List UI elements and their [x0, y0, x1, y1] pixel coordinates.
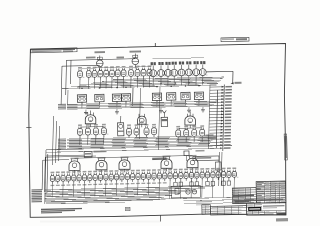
lower sig smudges — [248, 210, 252, 213]
tube W29 — [200, 168, 204, 170]
bus line C5 — [67, 142, 211, 145]
module A5 — [152, 93, 161, 101]
tube V25 — [127, 124, 131, 126]
ladder tail wires — [218, 152, 221, 186]
wire drop — [147, 181, 149, 195]
link wire — [46, 146, 232, 150]
wire drop — [169, 181, 171, 199]
tube W5 — [72, 171, 76, 173]
tube V16 — [172, 62, 174, 65]
tube W24 — [173, 169, 177, 171]
notes text block — [41, 208, 82, 210]
tube V14 — [158, 62, 160, 65]
tube V4 — [87, 67, 91, 69]
resistor — [222, 181, 225, 185]
resistor — [227, 181, 230, 185]
top tab box — [221, 37, 249, 41]
module A4 — [121, 94, 130, 102]
wire drop — [156, 101, 158, 107]
tube W23 — [168, 169, 172, 171]
tube W28 — [195, 168, 199, 170]
wire drop — [122, 78, 124, 88]
tube W8 — [88, 171, 92, 173]
wire drop — [148, 78, 150, 88]
wire drop — [179, 181, 181, 199]
bus line C3 — [67, 139, 214, 142]
net label D5 — [31, 196, 42, 197]
tube W11 — [104, 170, 108, 172]
wire drop — [73, 183, 75, 197]
cathode wire crown — [153, 79, 208, 80]
left riser — [60, 66, 63, 105]
wire drop — [99, 79, 101, 89]
tube W30 — [206, 168, 210, 170]
tube V13 — [142, 65, 146, 67]
bus line C1 — [67, 136, 216, 139]
resistor — [174, 182, 177, 186]
wire drop — [185, 138, 187, 142]
divider wire — [132, 88, 134, 106]
wire drop — [62, 183, 64, 197]
top-left notes box — [31, 48, 77, 53]
transformer T1 label — [94, 51, 105, 53]
tube W10 — [99, 170, 103, 172]
tube W18 — [141, 170, 145, 172]
wire drop — [136, 78, 138, 88]
osc sub box — [215, 162, 221, 170]
tube W20 — [152, 169, 156, 171]
wire drop — [158, 181, 160, 199]
top border tick — [154, 43, 156, 47]
wire drop — [222, 180, 224, 198]
bus line A1 — [113, 77, 224, 80]
drawing number — [277, 213, 286, 215]
net label D3 — [31, 193, 42, 194]
wire drop — [87, 137, 89, 145]
tube W9 — [93, 171, 97, 173]
gate row link — [75, 156, 193, 159]
tube V5 — [93, 67, 97, 69]
tube V31 — [192, 125, 196, 127]
wire drop — [103, 136, 105, 144]
net label D4 — [31, 194, 42, 195]
relay K1 — [117, 123, 123, 136]
crystal Y1 — [161, 117, 168, 126]
wire drop — [177, 139, 179, 143]
title text — [263, 205, 285, 207]
label TP-1 — [86, 56, 96, 58]
wire drop — [173, 79, 175, 85]
junction dots — [81, 88, 83, 90]
misc riser 3 — [159, 87, 161, 150]
resistor network — [175, 188, 179, 194]
misc riser 6 — [45, 150, 46, 204]
heater wire row1 — [78, 67, 151, 69]
module A3 — [112, 94, 121, 102]
tube V3 — [78, 67, 82, 69]
delay Z1 — [84, 152, 92, 158]
module A2 — [95, 94, 104, 102]
bus line D3 — [45, 190, 197, 194]
lower sig verticals — [251, 211, 253, 215]
tube V19 — [193, 61, 195, 64]
gate H3 — [119, 160, 130, 170]
bus line D5 — [45, 194, 181, 197]
tube W22 — [163, 169, 167, 171]
ladder label — [208, 137, 217, 139]
tube V22 — [86, 124, 90, 126]
tube W31 — [211, 168, 215, 170]
tube W2 — [56, 171, 60, 173]
left border tick — [26, 126, 31, 128]
resistor — [190, 182, 193, 186]
bus line C4 — [67, 140, 212, 143]
gate H5 — [187, 158, 198, 168]
net label C3 — [58, 142, 66, 143]
net label C6 — [58, 146, 66, 147]
bottom-right sheet number — [276, 218, 288, 221]
wire drop — [193, 138, 195, 142]
delay Z2 — [184, 151, 189, 156]
ladder rail outer — [223, 85, 225, 152]
wire drop — [51, 184, 53, 198]
bottom small box — [125, 207, 130, 211]
wire drop — [95, 137, 97, 145]
tube W16 — [131, 170, 135, 172]
ground — [188, 107, 190, 110]
logo box — [248, 207, 261, 211]
misc riser 5 — [52, 116, 53, 165]
tube V7 — [104, 66, 108, 68]
tube W27 — [190, 168, 194, 170]
tube W3 — [61, 171, 65, 173]
wire drop — [212, 180, 214, 198]
bus line A6 — [62, 85, 217, 89]
tube V29 — [176, 126, 180, 128]
bus line C6 — [67, 143, 210, 146]
wire drop — [115, 182, 117, 196]
bus line A4 — [80, 82, 220, 85]
net label D7 — [31, 199, 42, 200]
bus line A3 — [91, 80, 221, 83]
bus line D2 — [45, 188, 206, 192]
net label B1 — [58, 104, 66, 105]
long bus line E2 — [46, 202, 125, 204]
tube V13 — [151, 62, 153, 65]
long bus line E1 — [46, 200, 160, 203]
tolerance note line — [184, 199, 254, 201]
wire drop — [180, 79, 182, 85]
lower bus F — [120, 197, 246, 200]
application text — [196, 204, 210, 205]
right fold tab — [284, 134, 287, 160]
tube W35 — [232, 167, 236, 169]
gate G1 fanout — [80, 126, 104, 129]
tube W6 — [77, 171, 81, 173]
net label C1 — [58, 139, 66, 140]
bus line D1 — [45, 186, 215, 190]
wire drop — [202, 79, 204, 85]
titleblock outline — [247, 203, 286, 216]
gate G3 fanout — [178, 127, 202, 130]
sig row divider — [247, 206, 262, 208]
tube W4 — [66, 171, 70, 173]
bus line B2 — [67, 103, 216, 106]
wire drop — [142, 78, 144, 88]
sig smudges — [247, 204, 253, 205]
tube W33 — [222, 168, 226, 170]
wire drop — [83, 183, 85, 197]
tube V24 — [102, 124, 106, 126]
tube V14 — [148, 65, 152, 67]
bus line B3 — [67, 104, 214, 107]
revision table left frame — [232, 188, 256, 204]
revision table right frame — [256, 181, 286, 203]
wire drop — [130, 78, 132, 88]
net label C7 — [58, 148, 66, 149]
tube W32 — [216, 168, 220, 170]
net label B2 — [58, 105, 66, 106]
bus line D6 — [45, 196, 173, 199]
wire drop — [79, 79, 81, 89]
scale table — [202, 205, 211, 215]
tube V30 — [184, 126, 188, 128]
application line — [184, 202, 254, 204]
wire drop — [201, 138, 203, 142]
wire drop — [188, 79, 190, 85]
bus line A2 — [102, 79, 223, 82]
tube W17 — [136, 170, 140, 172]
wire drop — [93, 79, 95, 89]
label TP-2 — [116, 57, 124, 59]
net label B4 — [58, 108, 66, 109]
wire drop — [152, 80, 154, 86]
tube W25 — [179, 169, 183, 171]
tube V17 — [179, 61, 181, 64]
ground — [160, 108, 162, 111]
wire drop — [160, 80, 162, 86]
resistor — [195, 182, 198, 186]
net label C2 — [58, 140, 66, 141]
wire drop — [105, 79, 107, 89]
label DS1 — [205, 134, 213, 136]
tube V1 — [97, 60, 104, 67]
wire drop — [79, 137, 81, 145]
gate H4 — [161, 159, 172, 169]
tube V6 — [98, 66, 102, 68]
tube V27 — [145, 124, 149, 126]
resistor — [206, 181, 209, 185]
tube V11 — [129, 66, 133, 68]
misc hline 1 — [46, 148, 84, 151]
bus line B4 — [67, 106, 212, 109]
net label C4 — [58, 143, 66, 144]
label near ladder — [195, 150, 204, 152]
net label C5 — [58, 145, 66, 146]
tube V21 — [78, 124, 82, 126]
ladder rail inner — [216, 90, 217, 148]
wire drop — [116, 101, 118, 107]
tube V8 — [110, 66, 114, 68]
net label D8 — [31, 201, 42, 202]
module A6 — [167, 93, 176, 101]
ground — [85, 110, 87, 113]
wire drop — [94, 183, 96, 197]
tube V12 — [136, 66, 140, 68]
wire drop — [198, 100, 200, 106]
tube W13 — [115, 170, 119, 172]
wire drop — [111, 79, 113, 89]
thermistor RT2 — [192, 190, 196, 194]
lower sig row — [247, 209, 286, 212]
bus line A5 — [71, 83, 218, 86]
misc riser 2 — [139, 88, 140, 139]
bus line D7 — [45, 197, 165, 200]
tube W15 — [125, 170, 129, 172]
heater wire crown — [153, 58, 205, 59]
gate H2 — [96, 160, 107, 170]
tube V26 — [135, 124, 139, 126]
materials table — [210, 206, 246, 216]
connector arrow J1 — [231, 82, 234, 84]
bus line D8 — [45, 199, 157, 202]
riser join — [62, 64, 100, 67]
wire drop — [88, 79, 90, 89]
tube W12 — [109, 170, 113, 172]
tube V28 — [152, 124, 156, 126]
tube W19 — [147, 169, 151, 171]
tube V20 — [200, 61, 202, 64]
bus line C7 — [67, 145, 209, 148]
link wire 3 — [46, 154, 84, 157]
gate G3 — [185, 116, 196, 125]
left risers — [41, 160, 44, 190]
connector ladder J2 pins — [210, 86, 225, 88]
wire drop — [81, 102, 83, 108]
wire drop — [98, 102, 100, 108]
wire drop — [190, 180, 192, 198]
tube V2 — [132, 58, 139, 65]
transformer T2 label — [129, 50, 141, 52]
tube V10 — [122, 66, 126, 68]
misc riser 4 — [209, 85, 211, 149]
wire drop — [117, 78, 119, 88]
net label D6 — [31, 198, 42, 199]
thermistor RT1 — [186, 190, 190, 194]
net label D2 — [31, 191, 42, 192]
tube V23 — [94, 124, 98, 126]
scan shadow bottom — [40, 221, 160, 223]
tube V9 — [116, 66, 120, 68]
tolerance note text — [196, 201, 212, 202]
ground — [116, 109, 118, 112]
bus line D4 — [45, 192, 189, 195]
tube W1 — [50, 172, 54, 174]
enclosure — [171, 186, 200, 198]
tube W21 — [157, 169, 161, 171]
bottom center tick — [159, 215, 161, 221]
module A8 — [194, 92, 203, 100]
gate H1 — [69, 161, 80, 171]
gate G1 — [85, 115, 96, 124]
module A1 — [77, 95, 86, 103]
wire drop — [137, 182, 139, 196]
bus line C2 — [67, 137, 215, 140]
wire drop — [170, 100, 172, 106]
wire drop — [126, 182, 128, 196]
wire drop — [184, 100, 186, 106]
tube V15 — [165, 62, 167, 65]
left riser top — [43, 159, 69, 162]
misc riser 1 — [67, 90, 69, 105]
wire drop — [167, 79, 169, 85]
net label D1 — [31, 189, 42, 190]
delay label — [152, 157, 166, 159]
resistor — [211, 181, 214, 185]
tube W14 — [120, 170, 124, 172]
tube V32 — [200, 125, 204, 127]
wire drop — [201, 180, 203, 198]
wire drop — [125, 101, 127, 107]
gate G2 — [138, 116, 147, 124]
tube W34 — [227, 168, 231, 170]
drawing border frame — [29, 44, 286, 218]
bus line B1 — [67, 101, 218, 105]
tube W26 — [184, 169, 188, 171]
revision table rows — [256, 182, 285, 185]
module A7 — [181, 92, 190, 100]
ground — [202, 107, 204, 110]
resistor — [179, 182, 182, 186]
osc header box — [193, 156, 219, 161]
wire drop — [105, 182, 107, 196]
net label B3 — [58, 107, 66, 108]
pin number marks — [83, 77, 85, 78]
wire drop — [233, 179, 235, 197]
tube V18 — [186, 61, 188, 64]
link wire 2 — [46, 148, 225, 152]
tube W7 — [83, 171, 87, 173]
wire to J1 — [207, 70, 234, 73]
wire drop — [195, 79, 197, 85]
